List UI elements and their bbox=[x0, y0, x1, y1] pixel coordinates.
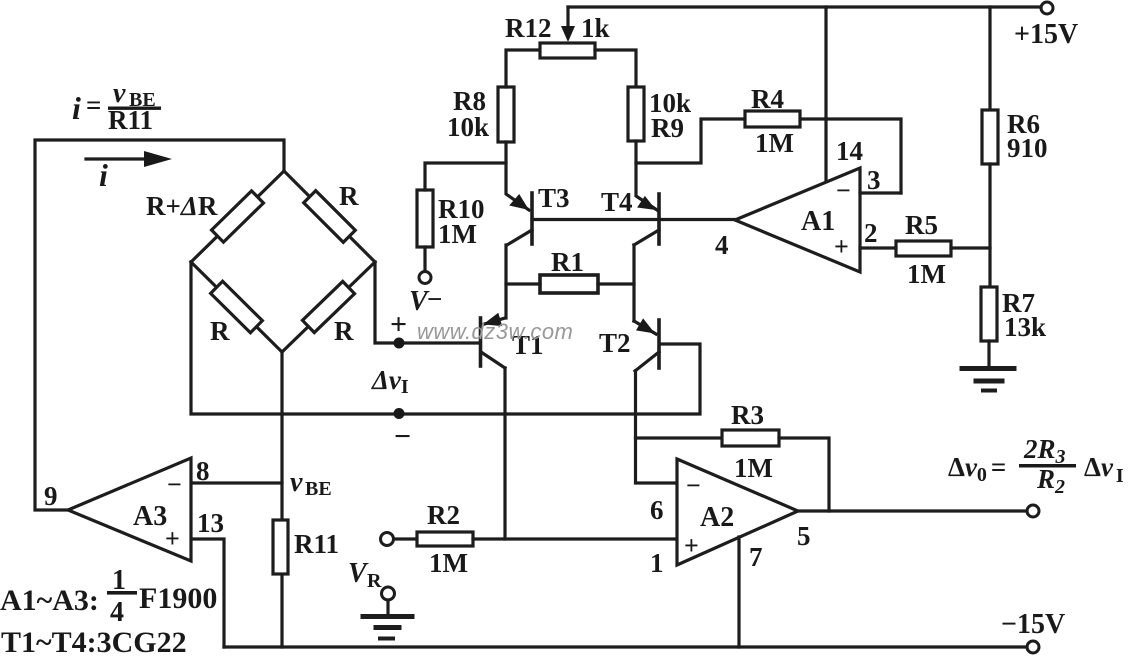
wire R9 bottom to T4 emitter bbox=[636, 141, 657, 210]
op-amp A1 triangle bbox=[735, 168, 860, 272]
wire R11 bottom to rail bbox=[280, 574, 283, 647]
wire R10 bottom to V- terminal bbox=[423, 247, 426, 271]
resistor R1 body bbox=[540, 275, 598, 293]
svg-text:BE: BE bbox=[305, 478, 332, 500]
wire bottom -15V rail bbox=[224, 645, 1027, 648]
svg-text:A1: A1 bbox=[801, 206, 835, 237]
wire R8 bottom to T3 emitter bbox=[506, 142, 529, 210]
node + dot on bridge output bbox=[394, 338, 405, 349]
svg-text:−: − bbox=[427, 284, 442, 314]
wire bridge right vertex to bottom vertex bbox=[282, 262, 375, 352]
svg-text:R12: R12 bbox=[505, 13, 552, 43]
resistor R7 body bbox=[981, 287, 997, 341]
svg-text:T2: T2 bbox=[599, 328, 631, 358]
resistor R9 body bbox=[628, 87, 644, 141]
svg-text:R4: R4 bbox=[751, 84, 784, 114]
svg-text:−: − bbox=[836, 176, 851, 205]
svg-text:R3: R3 bbox=[731, 400, 764, 430]
wire A1 pin14 from rail bbox=[824, 7, 827, 182]
svg-text:+: + bbox=[165, 524, 180, 553]
svg-text:1M: 1M bbox=[734, 453, 773, 483]
wire A3 pin8 to vBE node bbox=[191, 481, 282, 484]
resistor R11 body bbox=[273, 520, 288, 574]
resistor R bridge bottom-left arm bbox=[211, 281, 263, 332]
wire top-left loop from bridge top to A3 output bbox=[35, 140, 284, 510]
svg-text:=: = bbox=[86, 90, 101, 120]
svg-text:R: R bbox=[210, 316, 230, 346]
svg-text:3: 3 bbox=[867, 165, 881, 195]
svg-text:8: 8 bbox=[196, 456, 210, 486]
wire A2 pin7 down to rail bbox=[737, 537, 740, 647]
svg-text:1k: 1k bbox=[581, 13, 610, 43]
transistor T2 bbox=[657, 320, 661, 368]
terminal VR ground circle bbox=[382, 587, 395, 600]
wire bridge top vertex to right vertex bbox=[284, 171, 375, 262]
svg-text:A3: A3 bbox=[133, 501, 167, 532]
svg-text:+: + bbox=[390, 308, 407, 341]
terminal V- circle bbox=[419, 272, 431, 284]
svg-text:−15V: −15V bbox=[1001, 609, 1065, 640]
svg-text:F1900: F1900 bbox=[139, 582, 217, 615]
svg-text:R5: R5 bbox=[905, 210, 938, 240]
svg-text:i: i bbox=[99, 157, 108, 193]
svg-text:5: 5 bbox=[797, 521, 811, 551]
terminal +15V circle bbox=[1041, 2, 1053, 14]
svg-text:10k: 10k bbox=[447, 112, 489, 142]
svg-text:T1~T4:3CG22: T1~T4:3CG22 bbox=[1, 626, 187, 657]
wire bridge bottom vertex to left vertex bbox=[191, 262, 282, 352]
svg-text:Δv0=: Δv0= bbox=[948, 452, 1006, 486]
wire bridge left vertex to y414 bus to T2 base loop bbox=[191, 262, 700, 414]
svg-text:910: 910 bbox=[1007, 133, 1048, 163]
svg-text:7: 7 bbox=[749, 542, 763, 572]
svg-text:R2: R2 bbox=[427, 500, 460, 530]
svg-text:R2: R2 bbox=[1036, 464, 1065, 498]
svg-text:R: R bbox=[334, 316, 354, 346]
wire R5 right to divider node bbox=[951, 246, 990, 249]
transistor T3 bbox=[530, 193, 534, 244]
wire R2 left bbox=[394, 537, 417, 540]
wire bridge left vertex to top vertex bbox=[191, 171, 284, 262]
wire A3 pin13 down to rail bbox=[191, 539, 224, 647]
wire bridge right vertex to T1 base bbox=[375, 262, 479, 343]
wire R7 bottom to ground bbox=[987, 341, 990, 366]
wire A1 pin3 stub bbox=[860, 191, 901, 194]
resistor R bridge bottom-right arm bbox=[302, 281, 354, 332]
op-amp A3 triangle bbox=[68, 458, 191, 561]
svg-text:R11: R11 bbox=[294, 529, 339, 559]
wire R3 left from T2 collector rail bbox=[636, 436, 723, 439]
terminal VR input circle bbox=[381, 533, 394, 546]
transistor T1 bbox=[479, 318, 483, 366]
wire R12 wiper from +15V rail bbox=[566, 7, 569, 28]
svg-text:R9: R9 bbox=[651, 113, 684, 143]
svg-text:ΔvI: ΔvI bbox=[1084, 452, 1124, 487]
svg-text:R1: R1 bbox=[551, 247, 584, 277]
svg-text:1M: 1M bbox=[755, 128, 794, 158]
svg-text:R: R bbox=[367, 570, 382, 592]
wire R9 node to R4 left bbox=[636, 119, 745, 163]
terminal -15V circle bbox=[1027, 641, 1039, 653]
resistor R4 body bbox=[745, 111, 800, 127]
wire R12 left to R8 top bbox=[506, 50, 540, 87]
resistor R2 body bbox=[417, 532, 473, 546]
resistor R+dR bridge top-left arm bbox=[212, 191, 264, 242]
svg-text:1M: 1M bbox=[907, 259, 946, 289]
wire T2 collector down to A2 pin6 bbox=[636, 371, 678, 483]
arrow current i bbox=[86, 157, 146, 160]
svg-text:2: 2 bbox=[864, 218, 878, 248]
svg-text:4: 4 bbox=[715, 230, 729, 260]
wire T4 collector rail to T2 emitter bbox=[632, 245, 635, 321]
wire T3/T4 base bus to A1 output bbox=[532, 218, 735, 221]
svg-text:13k: 13k bbox=[1004, 312, 1046, 342]
resistor R12 body bbox=[540, 43, 595, 58]
wire R1 left bbox=[506, 282, 540, 285]
svg-text:V: V bbox=[348, 558, 369, 589]
svg-text:2R3: 2R3 bbox=[1023, 434, 1066, 468]
wire R2 right to A2 pin1 bbox=[473, 537, 677, 540]
svg-text:1: 1 bbox=[650, 548, 664, 578]
op-amp A2 triangle bbox=[677, 459, 798, 565]
node - dot on bridge output bbox=[394, 408, 405, 419]
svg-text:+: + bbox=[834, 232, 849, 261]
wire R12 right to R9 top bbox=[595, 50, 636, 87]
wire top +15V rail bbox=[568, 5, 1041, 8]
svg-text:13: 13 bbox=[197, 508, 224, 538]
wire R1 right bbox=[598, 282, 634, 285]
svg-text:T3: T3 bbox=[538, 183, 570, 213]
svg-text:−: − bbox=[167, 470, 182, 499]
svg-text:T4: T4 bbox=[601, 187, 633, 217]
wire A2 output to terminal bbox=[798, 509, 1027, 512]
svg-text:i: i bbox=[72, 90, 81, 126]
svg-text:A1~A3:: A1~A3: bbox=[0, 584, 99, 617]
wire A1 pin2 stub bbox=[860, 246, 896, 249]
transistor T4 bbox=[657, 194, 661, 244]
resistor R5 body bbox=[896, 241, 951, 256]
svg-text:ΔvI: ΔvI bbox=[371, 365, 409, 398]
wire bridge bottom vertex down to R11 bbox=[280, 352, 283, 520]
svg-text:6: 6 bbox=[650, 495, 664, 525]
wire R4 right loop to pin3 bbox=[800, 119, 901, 193]
svg-text:+15V: +15V bbox=[1014, 19, 1078, 50]
wire rail down to R6 bbox=[988, 7, 991, 110]
svg-text:A2: A2 bbox=[700, 502, 734, 533]
resistor R6 body bbox=[982, 110, 998, 164]
ground under R7 bbox=[962, 366, 1014, 371]
svg-text:1M: 1M bbox=[438, 219, 477, 249]
resistor R10 body bbox=[417, 190, 433, 247]
svg-text:R: R bbox=[339, 181, 359, 211]
wire T3 collector rail to T1 emitter bbox=[504, 245, 507, 318]
resistor R bridge top-right arm bbox=[304, 191, 356, 243]
svg-text:4: 4 bbox=[110, 597, 124, 628]
resistor R3 body bbox=[722, 430, 779, 446]
arrowhead R12 wiper bbox=[561, 26, 575, 42]
svg-text:−: − bbox=[394, 420, 411, 453]
svg-text:v: v bbox=[290, 467, 303, 498]
svg-text:14: 14 bbox=[836, 136, 863, 166]
wire T1 collector down to R2 bus bbox=[503, 368, 506, 539]
svg-text:9: 9 bbox=[44, 481, 58, 511]
terminal output circle bbox=[1027, 505, 1039, 517]
ground under VR bbox=[363, 614, 412, 619]
svg-text:1M: 1M bbox=[429, 548, 468, 578]
svg-text:−: − bbox=[686, 471, 701, 500]
wire R3 right loop to output bbox=[779, 438, 829, 511]
wire VR ground stub bbox=[386, 600, 389, 614]
svg-text:www.dz3w.com: www.dz3w.com bbox=[417, 319, 573, 344]
svg-text:R+ΔR: R+ΔR bbox=[146, 191, 218, 221]
svg-text:+: + bbox=[684, 531, 699, 560]
resistor R8 body bbox=[498, 87, 514, 142]
wire R10 top to R8 node bbox=[425, 163, 506, 190]
wire R6 bottom to R7 top bbox=[988, 164, 991, 287]
svg-text:R11: R11 bbox=[108, 105, 153, 135]
